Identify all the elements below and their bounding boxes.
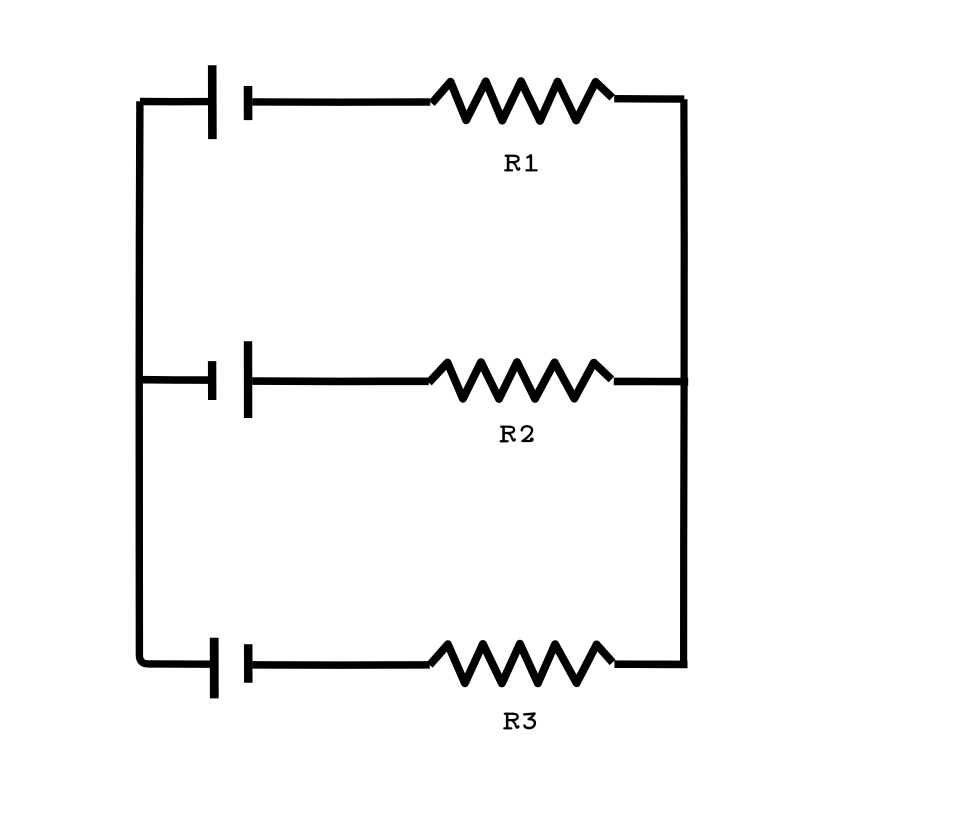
wire branch1 resistor to right rail: [614, 95, 684, 103]
battery B2 (middle cell, reversed): [212, 341, 248, 418]
battery B1 (top cell): [212, 65, 248, 139]
battery B3 long plate (+): [210, 638, 219, 699]
wire branch2 left rail to battery: [143, 376, 209, 384]
battery B3 (bottom cell): [214, 638, 248, 699]
wire branch3 battery to resistor R3: [253, 661, 430, 669]
resistor R2 zigzag: [429, 362, 612, 399]
wire branch3 resistor to right rail: [614, 660, 687, 668]
wire branch2 resistor to right rail (junction nub): [614, 378, 688, 386]
battery B1 long plate (+): [208, 65, 217, 139]
battery B2 long plate (+): [244, 341, 253, 418]
resistor R1 zigzag: [432, 81, 613, 121]
battery B3 short plate (-): [244, 644, 253, 683]
wire branch1 left rail to battery: [140, 98, 209, 106]
resistor R3 zigzag: [430, 644, 613, 684]
label R3: [504, 714, 535, 729]
wire branch2 battery to resistor R2: [252, 377, 429, 385]
wire right rail (node N2, common right bus): [680, 99, 688, 664]
battery B1 short plate (-): [244, 86, 253, 120]
label R2: [501, 426, 533, 441]
wire left rail (node N1, common left bus): [139, 101, 152, 664]
label R1: [505, 155, 536, 170]
wire branch3 left rail to battery: [151, 660, 210, 668]
battery B2 short plate (-): [208, 361, 216, 400]
wire branch1 battery to resistor R1: [252, 98, 430, 106]
